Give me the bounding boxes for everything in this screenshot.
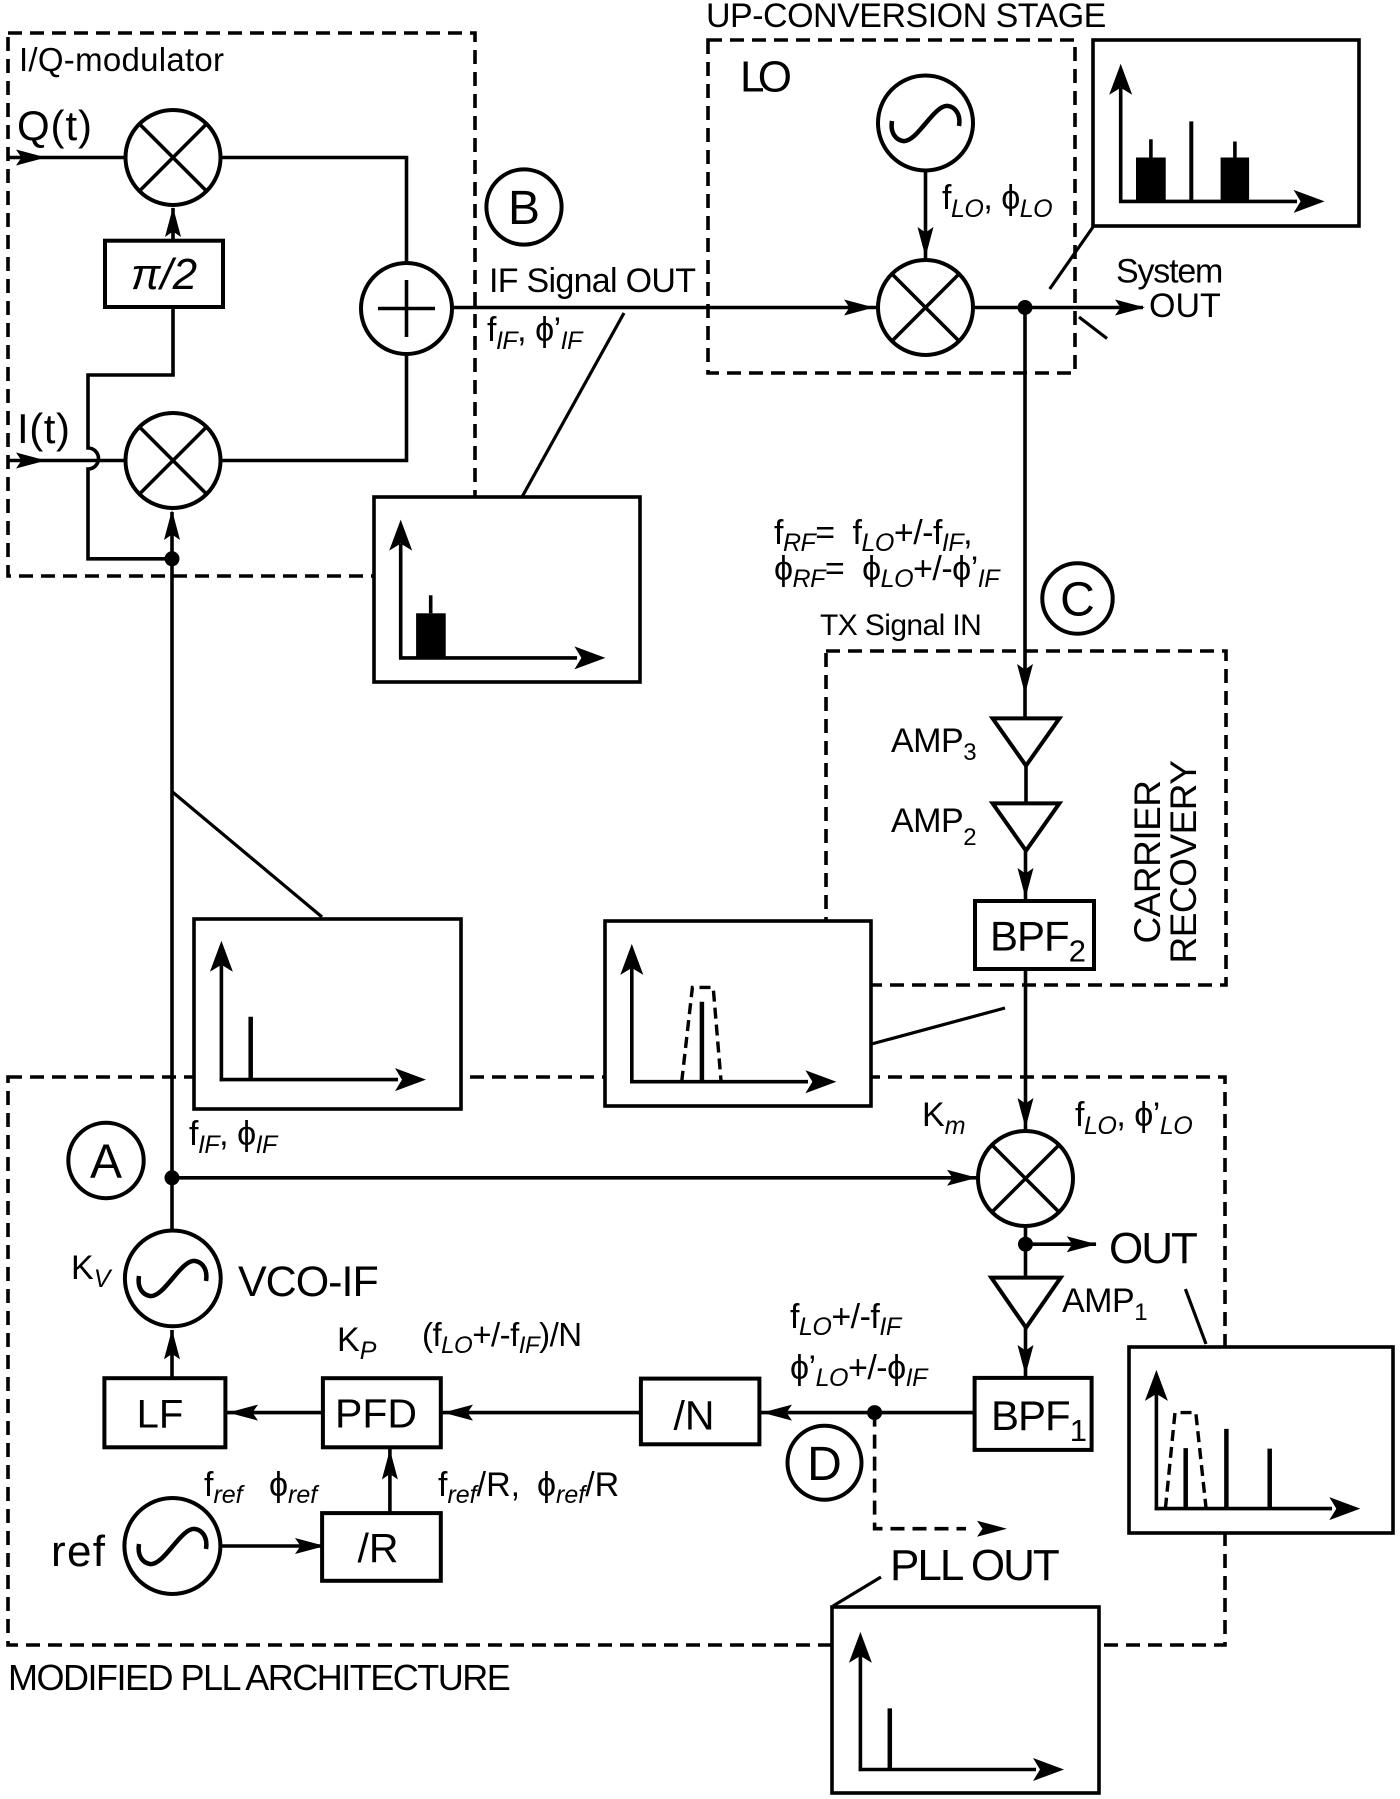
svg-text:RECOVERY: RECOVERY xyxy=(1163,761,1204,964)
svg-text:MODIFIED PLL ARCHITECTURE: MODIFIED PLL ARCHITECTURE xyxy=(8,1657,510,1698)
spectrum box: IF signal spectrum xyxy=(374,497,640,682)
wire node dot to I-mixer xyxy=(170,512,174,559)
svg-text:D: D xyxy=(807,1438,842,1491)
callout BPF2 spectrum xyxy=(872,1008,1006,1044)
arrow Q(t) input xyxy=(16,150,46,166)
spectrum box: BPF1 response spectrum xyxy=(1129,1347,1393,1533)
arrow into LF xyxy=(228,1405,258,1421)
svg-text:ref: ref xyxy=(51,1527,106,1576)
node dot pi/2 feed xyxy=(165,551,180,566)
callout slash below system-out wire xyxy=(1079,317,1107,339)
arrow summer into up-mixer xyxy=(844,300,874,316)
svg-text:LO: LO xyxy=(740,53,792,102)
divider /R box xyxy=(322,1513,441,1581)
spectrum content: VCO-IF tone xyxy=(220,965,398,1081)
CARRIER RECOVERY dashed box xyxy=(826,651,1226,985)
wire AMP1 to BPF1 xyxy=(1024,1328,1028,1378)
spectrum box: PLL OUT spectrum xyxy=(832,1607,1099,1793)
UP-CONVERSION STAGE dashed box xyxy=(708,40,1075,373)
amplifier AMP2 xyxy=(993,803,1060,850)
wire I(t) input xyxy=(8,459,126,463)
node dot OUT tap xyxy=(1018,1237,1033,1252)
spectrum content: BPF1 response xyxy=(1155,1394,1332,1510)
arrow /R into PFD xyxy=(382,1450,398,1480)
wire BPF2 to Km mixer xyxy=(1024,969,1028,1131)
wire Km mixer to AMP1 xyxy=(1024,1226,1028,1278)
node D circle xyxy=(788,1426,862,1500)
svg-text:PLL OUT: PLL OUT xyxy=(890,1541,1059,1590)
wire LF to VCO xyxy=(170,1330,174,1378)
mixer I (I/Q modulator bottom) xyxy=(126,413,221,508)
MODIFIED PLL ARCHITECTURE dashed box xyxy=(8,1077,1225,1645)
oscillator ref xyxy=(124,1498,220,1594)
filter BPF1 box xyxy=(975,1378,1092,1450)
callout VCO-IF spectrum xyxy=(173,792,323,917)
mixer Km carrier recovery xyxy=(978,1131,1073,1226)
wire ref to /R xyxy=(221,1544,323,1548)
arrow into PFD xyxy=(443,1405,473,1421)
spectrum box: VCO-IF tone spectrum xyxy=(194,919,461,1109)
oscillator LO xyxy=(878,76,973,171)
wire Q(t) input xyxy=(8,156,126,160)
svg-text:OUT: OUT xyxy=(1109,1224,1197,1273)
node D dot xyxy=(867,1405,882,1420)
node B circle xyxy=(486,169,561,244)
mixer up-conversion xyxy=(878,260,973,355)
arrow into Km mixer top xyxy=(1018,1098,1034,1128)
wire I-mixer to summer xyxy=(221,354,407,461)
wire pi/2 bottom feed with hop xyxy=(88,307,173,559)
spectrum content: IF signal xyxy=(399,544,577,660)
amplifier AMP1 xyxy=(991,1278,1060,1328)
wire Q-mixer to summer xyxy=(221,158,407,264)
svg-text:PFD: PFD xyxy=(335,1391,417,1437)
svg-text:B: B xyxy=(508,182,540,235)
wire OUT tap xyxy=(1026,1242,1097,1246)
svg-text:/N: /N xyxy=(674,1393,715,1439)
node A dot xyxy=(165,1170,180,1185)
svg-text:VCO-IF: VCO-IF xyxy=(238,1258,378,1306)
arrow pi/2 into Q-mixer xyxy=(165,207,181,237)
svg-text:Q(t): Q(t) xyxy=(17,102,92,149)
svg-text:/R: /R xyxy=(358,1525,399,1571)
arrow node A into Km mixer xyxy=(947,1170,977,1186)
callout PLL OUT spectrum xyxy=(833,1577,881,1606)
oscillator VCO-IF xyxy=(125,1231,221,1327)
arrow System OUT xyxy=(1115,300,1145,316)
spectrum box: BPF2 response spectrum xyxy=(605,921,871,1106)
node A circle xyxy=(68,1123,143,1198)
arrow I(t) input xyxy=(16,453,46,469)
svg-text:I(t): I(t) xyxy=(17,405,70,452)
pi/2 phase shifter box xyxy=(105,241,223,307)
svg-text:OUT: OUT xyxy=(1149,287,1221,325)
arrow into /N xyxy=(762,1405,792,1421)
wire VCO feed vertical xyxy=(170,559,174,1231)
svg-text:C: C xyxy=(1060,574,1095,627)
spectrum content: BPF2 response xyxy=(630,968,808,1083)
wire AMP3 to AMP2 xyxy=(1024,766,1028,804)
amplifier AMP3 xyxy=(993,718,1060,765)
I/Q-modulator dashed box xyxy=(8,33,475,576)
arrow PLL OUT dashed tap xyxy=(977,1521,1007,1537)
wire up-mixer to System OUT xyxy=(973,306,1144,310)
filter BPF2 box xyxy=(975,901,1094,969)
wire BPF1 to /N xyxy=(761,1411,975,1415)
callout IF spectrum xyxy=(522,313,624,497)
svg-text:TX Signal IN: TX Signal IN xyxy=(820,609,981,642)
node dot system out xyxy=(1018,300,1033,315)
arrow into BPF1 xyxy=(1018,1345,1034,1375)
svg-text:IF Signal OUT: IF Signal OUT xyxy=(489,262,695,300)
wire AMP2 to BPF2 xyxy=(1024,851,1028,901)
node C circle xyxy=(1042,563,1112,633)
wire /N to PFD xyxy=(442,1411,641,1415)
wire PFD to LF xyxy=(227,1411,323,1415)
arrow LF into VCO xyxy=(164,1329,180,1359)
wire node A to Km mixer xyxy=(172,1176,977,1180)
divider /N box xyxy=(641,1379,760,1445)
svg-text:π/2: π/2 xyxy=(131,250,197,299)
wire pi/2 to Q-mixer xyxy=(171,208,175,241)
svg-text:A: A xyxy=(90,1136,122,1189)
wire node C vertical into carrier recovery xyxy=(1023,308,1027,719)
wire LO to up-mixer xyxy=(924,171,928,260)
spectrum box: system out spectrum xyxy=(1093,40,1359,226)
callout system-out spectrum xyxy=(1050,227,1093,289)
spectrum content: system out xyxy=(1119,88,1297,203)
wire summer to up-mixer xyxy=(452,306,877,310)
svg-text:I/Q-modulator: I/Q-modulator xyxy=(19,41,224,78)
arrow OUT tap xyxy=(1067,1236,1097,1252)
svg-text:CARRIER: CARRIER xyxy=(1127,780,1168,943)
summer xyxy=(361,263,452,354)
arrow into BPF2 xyxy=(1018,868,1034,898)
svg-text:System: System xyxy=(1116,253,1222,291)
arrow node into I-mixer xyxy=(164,510,180,540)
wire /R to PFD xyxy=(388,1449,392,1513)
callout BPF1 spectrum xyxy=(1185,1289,1206,1344)
arrow into carrier recovery xyxy=(1017,664,1033,694)
svg-text:LF: LF xyxy=(137,1393,184,1437)
spectrum content: PLL OUT xyxy=(859,1656,1036,1771)
arrow LO into up-mixer xyxy=(918,227,934,257)
svg-text:UP-CONVERSION STAGE: UP-CONVERSION STAGE xyxy=(706,0,1106,35)
wire PLL OUT dashed tap xyxy=(875,1413,966,1529)
arrow ref into /R xyxy=(295,1538,325,1554)
mixer Q (I/Q modulator top) xyxy=(126,110,221,205)
detector PFD box xyxy=(323,1378,441,1447)
filter LF box xyxy=(104,1378,225,1447)
